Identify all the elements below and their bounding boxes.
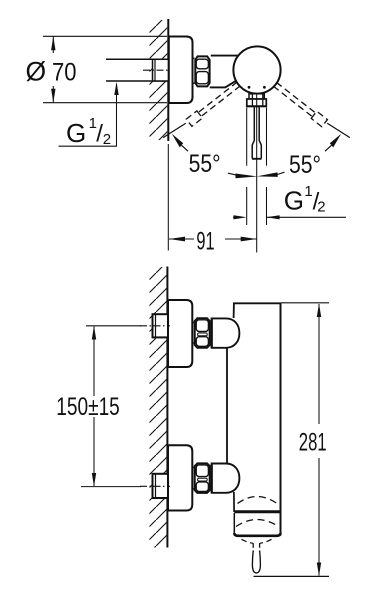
top union bulge: [212, 318, 240, 347]
bottom union bulge: [212, 464, 240, 493]
wall face line (top view): [167, 19, 169, 141]
escutcheon top (bottom view): [168, 300, 192, 367]
outlet ring: [234, 510, 280, 513]
lever rod: [252, 106, 261, 158]
svg-text:150±15: 150±15: [56, 393, 120, 421]
svg-text:281: 281: [299, 429, 327, 457]
svg-text:70: 70: [52, 58, 77, 86]
hex nut top (bottom view): [195, 318, 210, 347]
G 1/2 label right: [284, 183, 326, 216]
G1/2 extension lines: [246, 108, 248, 166]
nut facet pills: [196, 59, 208, 69]
body cylinder: [233, 302, 281, 304]
wall face line (bottom): [166, 267, 168, 548]
svg-text:Ø: Ø: [26, 56, 47, 86]
150+-15 dimension: [86, 325, 141, 327]
wall hatching (bottom view): [150, 267, 167, 548]
svg-text:G: G: [284, 186, 304, 216]
svg-text:G: G: [66, 118, 86, 148]
texts: bottom view: [56, 393, 326, 457]
supply pipes in wall: [153, 314, 169, 337]
pipe center line (dash-dot): [143, 69, 171, 71]
svg-text:2: 2: [317, 199, 325, 216]
G 1/2 label left: [66, 115, 111, 148]
svg-text:2: 2: [103, 131, 111, 148]
escutcheon (top view): [169, 37, 193, 104]
svg-text:91: 91: [196, 227, 214, 255]
wall hatching (top view): [150, 20, 168, 140]
angle extension line right + arrow: [327, 123, 350, 137]
supply pipe lines: [106, 59, 169, 81]
svg-text:55°: 55°: [289, 151, 321, 179]
angle extension line left + arrow: [163, 123, 186, 137]
spout nipple: [252, 543, 254, 552]
pipe center dash-dot lines: [140, 325, 170, 327]
pipe fitting in wall: [153, 59, 169, 81]
G1/2 coupling: [247, 99, 266, 106]
mixer body circle: [233, 46, 280, 93]
dia70 dimension arrows: [43, 36, 167, 102]
hex nut (top view): [195, 56, 209, 86]
escutcheon bottom (bottom view): [168, 445, 192, 510]
svg-text:1: 1: [304, 183, 312, 200]
neck between escutcheon and nut: [193, 57, 195, 59]
adapter piece: [210, 56, 238, 88]
collar below circle: [249, 94, 264, 99]
281 dimension: [281, 302, 329, 304]
hex nut bottom (bottom view): [195, 463, 210, 493]
dashed internal arcs: [238, 497, 278, 504]
G1/2 dimension (lower): [233, 216, 240, 218]
dashed lever, rotated left 52: [186, 80, 241, 126]
dashed lever, rotated right 52: [272, 81, 327, 127]
center line of lever: [256, 93, 258, 253]
91 dimension: [167, 144, 169, 251]
texts: top view: [26, 56, 322, 255]
screw dots: [248, 86, 251, 89]
neck pieces: [192, 322, 194, 324]
bowtie angle arrows at center line: [236, 174, 258, 179]
G1/2 left leader: [59, 82, 119, 146]
svg-text:55°: 55°: [189, 150, 221, 178]
